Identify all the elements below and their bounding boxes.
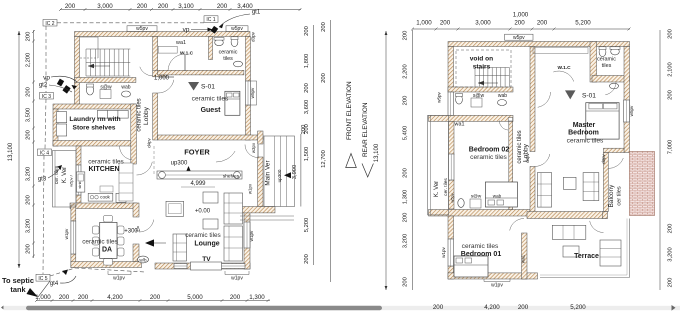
stair block / small bath divider [75,78,136,83]
svg-text:3,600: 3,600 [304,100,310,115]
scrollbar thumb [26,306,382,310]
svg-text:TV: TV [202,256,211,263]
svg-text:3,200: 3,200 [403,234,409,249]
void dashed rect [456,50,511,87]
svg-text:1,000: 1,000 [513,12,529,19]
R bed01 bottom wall [448,273,538,279]
svg-text:200: 200 [59,294,70,301]
lounge right wall [244,210,250,269]
svg-text:5,200: 5,200 [575,20,591,27]
svg-text:tank: tank [10,285,26,294]
svg-text:200: 200 [26,195,32,205]
foyer-lounge arc [216,151,235,162]
top wall [75,32,251,37]
svg-text:wab: wab [493,194,502,199]
svg-text:vp: vp [43,75,50,82]
stair bottom door arc [140,67,153,76]
IC 5 box [36,274,50,281]
kitchen door arc [137,162,153,175]
svg-text:up300: up300 [277,169,282,182]
svg-text:200: 200 [668,90,674,100]
svg-text:1,000: 1,000 [416,20,432,27]
bed 01 [454,256,488,277]
main ver dim 3,900 [300,134,302,207]
svg-text:d3pv: d3pv [251,31,256,42]
R bed01 left wall low [448,266,454,279]
lounge coffee table [203,219,218,229]
svg-text:stairs: stairs [473,64,491,71]
svg-text:3,200: 3,200 [26,219,32,234]
svg-text:200: 200 [537,20,548,27]
svg-text:w1pv: w1pv [491,283,503,289]
svg-text:sink: sink [77,181,82,188]
kitchen left wall upper [76,146,81,165]
svg-text:200: 200 [668,224,674,234]
foyer dashed line [153,146,155,176]
scrollbar track [4,306,680,310]
svg-text:200: 200 [668,29,674,39]
svg-text:S-01: S-01 [201,84,215,91]
IC 2 box [43,20,57,27]
svg-text:2,100: 2,100 [668,62,674,77]
left plan left dimension column [33,30,35,258]
svg-text:200: 200 [26,130,32,140]
svg-text:200: 200 [403,277,409,287]
laundry top wall [53,104,136,109]
svg-text:7,000: 7,000 [668,140,674,155]
living door arc (from lobby) [535,154,550,166]
stairs first floor [475,68,509,87]
right plan 13,100 [385,31,387,290]
svg-text:200: 200 [26,32,32,42]
svg-text:ceramic tiles: ceramic tiles [462,243,499,250]
svg-text:tiles: tiles [602,63,612,69]
balcony door arc [608,158,623,169]
svg-text:2,200: 2,200 [403,64,409,79]
R lobby right wall lower [530,167,535,217]
stair arrow R [478,82,498,84]
svg-text:W.1.C: W.1.C [557,65,571,71]
master door arc [538,92,551,107]
svg-text:200: 200 [321,73,327,83]
guest right wall lower [246,105,251,140]
terrace door arc [590,221,604,233]
svg-text:3,900: 3,900 [292,165,298,180]
svg-text:1,500: 1,500 [304,147,310,162]
R bed02 left wall [449,121,455,154]
terrace outline [540,277,630,279]
svg-text:w5pv: w5pv [231,26,243,32]
R window w5pv bed02 left [449,154,455,180]
svg-text:3,000: 3,000 [97,3,113,10]
svg-text:w1pv: w1pv [248,183,253,194]
svg-text:wab: wab [121,85,130,91]
svg-text:cer. tiles: cer. tiles [443,178,449,196]
bath WC [231,37,238,46]
svg-text:200: 200 [304,83,310,93]
kitchen sink counter [77,172,85,192]
svg-text:2,200: 2,200 [26,53,32,68]
left wall upper (stair block) [75,37,80,105]
R window w5pv left [448,92,454,115]
svg-text:w5pv: w5pv [136,26,148,32]
main ver arrow [284,172,291,178]
svg-text:3,100: 3,100 [178,3,194,10]
svg-text:3,200: 3,200 [26,167,32,182]
svg-text:3,500: 3,500 [26,108,32,123]
arrow into lounge [145,239,154,246]
svg-text:ceramic tiles: ceramic tiles [470,154,507,161]
R bed02 bottom wall [429,210,531,217]
svg-text:200: 200 [514,20,525,27]
left plan top dimension line [60,9,301,11]
svg-text:200: 200 [304,26,310,36]
window w1pv lounge right [244,222,250,248]
guest left wall lower [153,93,158,140]
window w5pv kitchen left [76,165,81,195]
svg-text:200: 200 [403,168,409,178]
svg-text:tiles: tiles [223,56,233,62]
main ver bottom wall [240,207,275,213]
svg-text:s@w: s@w [471,194,482,199]
svg-text:12,700: 12,700 [321,150,327,168]
laundry bottom wall [53,141,136,147]
svg-text:w5pv: w5pv [437,91,442,102]
R WC [456,95,463,104]
svg-text:w5pv /: w5pv / [69,174,74,186]
R top wall [448,42,630,47]
svg-text:200: 200 [230,294,241,301]
foyer shelves strip [157,171,242,179]
R bath sink [611,48,620,55]
master bed [586,103,619,139]
bath door arc [168,54,185,71]
svg-text:void on: void on [470,56,493,63]
kitchen right counter [119,163,133,201]
svg-text:w1pv: w1pv [231,276,243,282]
svg-text:gt4: gt4 [50,281,59,287]
svg-text:200: 200 [150,294,161,301]
svg-text:+300: +300 [124,229,138,235]
svg-text:1,300: 1,300 [403,190,409,205]
lounge sofa left [173,234,187,261]
bed01 door arc [510,219,524,231]
svg-text:IC 3: IC 3 [42,94,51,100]
svg-text:200: 200 [301,125,307,135]
svg-text:IC 2: IC 2 [45,21,54,27]
svg-text:To septic: To septic [2,276,34,285]
living room sofas [537,173,598,208]
svg-text:IC 4: IC 4 [40,150,49,156]
svg-text:wa1: wa1 [520,254,525,263]
DA left wall lower [71,254,76,268]
svg-text:Lounge: Lounge [194,241,219,248]
R K.Ver porch [428,115,449,214]
svg-text:4,999: 4,999 [190,181,206,187]
wic shelves [158,46,177,53]
vp flag upper [57,79,64,87]
svg-text:200: 200 [518,304,529,311]
left plan overall height dim 13,100 [18,31,20,268]
IC 1 box [204,16,218,22]
R lobby right wall upper [530,47,535,152]
svg-text:200: 200 [403,213,409,223]
svg-text:1,000: 1,000 [35,294,51,301]
svg-text:W.1.C: W.1.C [180,51,194,57]
svg-text:w1pv: w1pv [64,228,69,239]
svg-text:+0.00: +0.00 [195,209,211,215]
svg-text:wa1: wa1 [175,40,186,46]
svg-text:3,200: 3,200 [668,247,674,262]
svg-text:ceramic tiles: ceramic tiles [88,159,124,166]
svg-text:1,000: 1,000 [154,76,170,82]
guest door arc [158,80,174,93]
R bed02 right wall [509,121,513,209]
svg-text:ceramic tiles: ceramic tiles [192,96,229,103]
foyer up arrow [188,167,190,175]
R window w5pv right [624,100,630,122]
window w5pv guest right [246,81,251,105]
window label box w5pv guest [251,81,257,105]
IC 4 box [38,149,52,156]
svg-text:200: 200 [440,20,451,27]
svg-text:FRONT ELEVATION: FRONT ELEVATION [346,81,353,140]
svg-text:5,400: 5,400 [403,126,409,141]
guest right wall upper [246,37,251,82]
lobby / guest left wall upper [153,37,158,71]
bath towel [234,61,243,67]
svg-text:200: 200 [217,3,228,10]
svg-text:4,200: 4,200 [484,304,500,311]
R bed01 right wall [522,233,528,279]
svg-text:5,200: 5,200 [304,218,310,233]
svg-text:w5pv: w5pv [629,105,634,116]
svg-text:ceramic tiles: ceramic tiles [185,232,221,239]
svg-text:KITCHEN: KITCHEN [88,166,119,173]
DA-foyer door arc [139,220,154,232]
left plan bottom dimension line [36,300,270,302]
svg-text:gt3: gt3 [38,177,47,183]
svg-text:ceramic: ceramic [219,50,238,56]
bath sink [215,39,224,45]
svg-text:K. Ver: K. Ver [62,167,68,183]
svg-text:wa1: wa1 [454,122,465,128]
right plan right dim column [659,30,661,290]
w1pv bracket under lounge [225,274,249,276]
lounge seat top-middle [203,192,218,203]
svg-text:ceramic tiles: ceramic tiles [82,239,118,246]
svg-text:w5pv: w5pv [250,87,255,98]
kitchen upper cabinets [100,186,113,192]
terrace sofa [552,225,621,266]
vp flag lower [62,85,70,93]
svg-text:200: 200 [78,294,89,301]
wic door arc [553,71,574,81]
svg-text:ceramic tiles: ceramic tiles [137,98,143,131]
svg-text:d4pv: d4pv [147,137,152,147]
svg-text:1,800: 1,800 [304,54,310,69]
R terrace top wall [527,212,607,219]
svg-text:w1pv: w1pv [113,276,125,282]
DA left wall upper [71,205,76,221]
svg-text:gt2: gt2 [39,83,48,89]
svg-text:200: 200 [403,96,409,106]
svg-text:Lobby: Lobby [143,106,150,125]
S-01 section marker [188,82,199,91]
R bath towel [610,83,619,89]
stair direction arrow [88,65,110,67]
svg-text:w3pv: w3pv [251,142,256,153]
R bed01 left wall up [448,216,454,239]
ground bath WC [86,85,93,95]
dining table [100,222,117,258]
kitchen left wall lower [76,195,81,203]
w/b basin [138,256,149,263]
svg-text:ceramic: ceramic [597,57,616,63]
K. Ver porch [53,151,77,208]
R wa1 wall [429,115,514,121]
svg-text:Balcony: Balcony [608,184,615,208]
foyer right door arc [245,145,258,158]
svg-text:Laundry rm with: Laundry rm with [69,116,120,123]
steps below main ver [240,215,294,217]
kitchen cook counter [88,193,113,201]
R bath door arc [605,82,616,95]
R right wall [624,47,630,153]
laundry shelves top [97,110,128,118]
laundry shelves left [56,112,66,123]
svg-text:Bedroom: Bedroom [568,130,599,137]
svg-text:1,300: 1,300 [249,294,265,301]
guest bed [225,91,240,115]
svg-text:ceramic tiles: ceramic tiles [567,138,604,145]
left plan right dimension columns [313,25,315,265]
bed01 ensuite WC [458,199,464,208]
svg-text:DA: DA [102,247,112,254]
svg-text:13,100: 13,100 [8,142,14,161]
bath divider [209,37,213,60]
R bath left wall [590,42,597,83]
R terrace top wall piece [603,212,608,219]
kitchen fridge [116,193,126,202]
svg-text:IC 1: IC 1 [206,17,215,23]
window w1pv DA left [71,221,76,254]
svg-text:Bedroom 02: Bedroom 02 [469,147,510,154]
svg-text:w5pv: w5pv [450,193,455,202]
svg-text:5,000: 5,000 [187,294,203,301]
foyer right wall [258,157,263,207]
DA right wall lower [133,244,139,262]
kitchen bottom wall [70,203,137,209]
bed 02 [485,182,517,207]
right plan left dim column [412,30,414,290]
svg-text:200: 200 [26,244,32,254]
svg-text:Master: Master [573,122,596,129]
scrollbar left arrow [1,306,4,310]
R bath bottom wall [592,76,630,83]
svg-text:Store shelves: Store shelves [73,125,116,132]
foyer top wall [158,135,263,140]
svg-text:5,200: 5,200 [570,304,586,311]
R left wall upper [448,47,454,93]
svg-text:200: 200 [403,31,409,41]
DA right wall upper [133,203,139,217]
svg-text:200: 200 [137,3,148,10]
window lounge bottom a [174,264,187,269]
svg-text:cer tiles: cer tiles [617,186,623,205]
svg-text:200: 200 [304,254,310,264]
lounge sofas right [173,193,243,261]
svg-text:w1pv: w1pv [441,246,446,257]
foyer right wall top piece [258,131,263,144]
svg-text:200: 200 [65,3,76,10]
lounge armchair top-left [166,201,184,216]
window lounge bottom b [218,264,245,269]
svg-text:13,100: 13,100 [374,143,380,162]
scrollbar right arrow [672,305,676,311]
svg-text:Terrace: Terrace [574,253,599,260]
svg-text:d3pv: d3pv [601,153,606,163]
laundry-kitchen right wall [131,104,137,164]
R bed02 left wall low [449,180,455,209]
svg-text:3,000: 3,000 [475,20,491,27]
svg-text:w5pv: w5pv [513,35,525,41]
svg-text:S-01: S-01 [582,93,596,100]
svg-text:w/b: w/b [139,258,147,263]
svg-text:shelves: shelves [223,174,240,180]
laundry door arc [120,146,133,160]
svg-text:200: 200 [668,278,674,288]
bath bottom wall [158,70,244,75]
DA bottom wall [71,262,142,268]
svg-text:4,200: 4,200 [107,294,123,301]
S-01 marker R [565,90,576,99]
svg-text:200: 200 [158,3,169,10]
svg-text:gt1: gt1 [252,10,261,16]
R bath WC [599,47,606,56]
svg-text:d4pv: d4pv [525,152,530,162]
TV cabinet [191,262,222,270]
svg-text:200: 200 [433,304,444,311]
pier at lobby corner [153,70,167,77]
svg-text:IC 5: IC 5 [38,276,47,282]
svg-text:K. Ver: K. Ver [434,181,440,197]
R balcony left wall [604,153,609,212]
IC 3 box [40,93,54,100]
R master bottom wall [604,148,625,152]
svg-text:Main Ver: Main Ver [265,160,272,186]
main veranda steps [264,136,295,207]
svg-text:vp: vp [183,27,190,34]
svg-text:wab: wab [498,93,507,99]
laundry left wall [53,109,58,146]
svg-text:Guest: Guest [201,107,222,114]
stairs ground floor [80,37,130,76]
svg-text:cook: cook [100,194,110,199]
dashed drain lines [57,22,204,24]
svg-text:REAR ELEVATION: REAR ELEVATION [362,102,369,157]
svg-text:200: 200 [26,87,32,97]
svg-text:200: 200 [321,22,327,32]
svg-text:FOYER: FOYER [184,148,210,157]
svg-text:w1pv: w1pv [249,230,254,241]
bed02 door arc [499,121,508,131]
svg-text:up300: up300 [171,161,188,167]
lounge bottom wall [155,263,250,269]
R window w1pv bed01 left [448,239,454,266]
R wall below stairs [448,87,513,92]
balcony red brick deck [630,152,655,216]
